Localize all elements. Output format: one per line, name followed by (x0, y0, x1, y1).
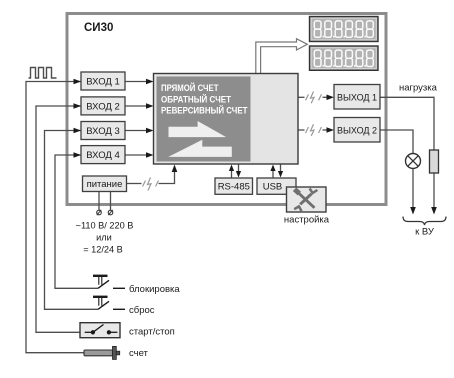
svg-text:ОБРАТНЫЙ СЧЕТ: ОБРАТНЫЙ СЧЕТ (161, 93, 232, 104)
svg-text:РЕВЕРСИВНЫЙ СЧЕТ: РЕВЕРСИВНЫЙ СЧЕТ (161, 105, 248, 116)
svg-text:RS-485: RS-485 (218, 182, 250, 193)
svg-text:ВХОД 4: ВХОД 4 (86, 150, 119, 161)
svg-text:ВЫХОД 2: ВЫХОД 2 (337, 125, 377, 135)
svg-text:ВХОД 3: ВХОД 3 (86, 126, 119, 137)
svg-text:питание: питание (87, 179, 123, 190)
svg-text:ВХОД 1: ВХОД 1 (86, 77, 119, 88)
svg-text:или: или (96, 233, 112, 243)
svg-text:~110 В/ 220 В: ~110 В/ 220 В (76, 221, 134, 231)
svg-text:USB: USB (263, 182, 283, 193)
svg-text:СИ30: СИ30 (84, 22, 113, 34)
svg-text:= 12/24 В: = 12/24 В (83, 245, 123, 255)
svg-text:ВЫХОД 1: ВЫХОД 1 (337, 92, 377, 102)
svg-text:сброс: сброс (129, 305, 155, 316)
svg-text:нагрузка: нагрузка (399, 83, 438, 94)
svg-text:счет: счет (129, 348, 149, 359)
svg-text:к ВУ: к ВУ (415, 227, 435, 238)
svg-text:ВХОД 2: ВХОД 2 (86, 101, 119, 112)
svg-text:ПРЯМОЙ СЧЕТ: ПРЯМОЙ СЧЕТ (161, 82, 219, 93)
svg-text:блокировка: блокировка (129, 284, 180, 295)
svg-text:старт/стоп: старт/стоп (129, 326, 175, 337)
svg-text:настройка: настройка (284, 215, 330, 226)
